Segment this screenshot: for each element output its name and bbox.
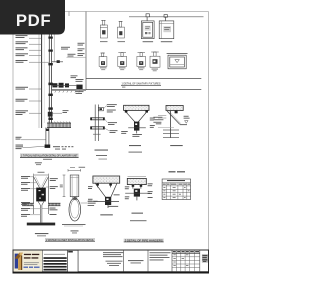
anchor bolts (125, 110, 128, 112)
logo company name lines (24, 254, 31, 255)
brace rods (96, 184, 106, 198)
elevation note dotted (53, 146, 73, 149)
pipe clamp detail: leader texts (107, 104, 118, 133)
title strip: typical installation detail (20, 153, 79, 157)
company logo cell background (14, 251, 43, 272)
seal box (68, 250, 78, 271)
address striped text block (44, 253, 65, 256)
legend header text (167, 180, 185, 181)
page background (0, 0, 216, 287)
logo address lines (24, 261, 39, 264)
sheet frame (13, 12, 209, 251)
hanger rods and bolts (97, 183, 99, 187)
svg-text:PDF: PDF (16, 11, 51, 30)
base line (62, 223, 86, 225)
fixture symbol FV-1 (row1) (100, 20, 107, 38)
revision table (172, 250, 200, 272)
fixture symbol S-1 (row1, double walled) (141, 14, 154, 39)
row2 drain symbol 3 (137, 53, 146, 67)
pipe couplings (48, 37, 52, 121)
pipe clamp detail: flange bars (91, 118, 105, 129)
annotation text stacks left (16, 35, 29, 149)
fixture symbol FV-2 (row1) (117, 21, 124, 38)
annotation leader lines (21, 38, 49, 148)
urinal dimension line (34, 174, 49, 176)
notes between details (153, 117, 163, 123)
title strip: pipe hanger details (124, 239, 164, 242)
sheet title cell texts (150, 252, 171, 260)
work elements cell text (128, 260, 144, 261)
svg-text:1 DETAIL OF SANITARY FIXTURES: 1 DETAIL OF SANITARY FIXTURES (122, 82, 161, 86)
label A (100, 214, 113, 215)
title strip: water closet detail (45, 238, 95, 241)
pipe end cap (45, 145, 51, 148)
bowl connection (73, 197, 77, 200)
wall section vertical lines (38, 34, 40, 128)
section labels (129, 145, 141, 146)
central clamp assembly (134, 122, 139, 131)
logo blue contact line (24, 267, 29, 268)
ceiling support detail B: slab (127, 178, 146, 184)
title block frame (13, 250, 209, 272)
wall-mount valve with leader (48, 112, 53, 117)
row2 drain symbol 4 (150, 52, 160, 67)
row2 drain symbol 1 (99, 53, 107, 66)
vertical hanger rod (169, 111, 171, 138)
revision table header marks (173, 251, 199, 252)
floor band left (22, 203, 34, 206)
annotation text stacks right of riser (61, 43, 85, 94)
diagonal strut (167, 111, 180, 124)
leader texts B (125, 183, 153, 199)
logo emblem angled top (15, 253, 23, 259)
band rules (86, 77, 201, 79)
elevation detail leader texts (156, 116, 190, 125)
legend table (162, 179, 191, 200)
left dimension rail (63, 175, 65, 197)
leader texts A (88, 186, 120, 207)
logo emblem tan column (18, 255, 22, 270)
inverted triangle mark (185, 121, 189, 124)
plan label (71, 230, 79, 231)
ceiling support detail B: dim line (128, 176, 147, 178)
cell dividers (43, 250, 200, 272)
ceiling support detail A: slab (93, 176, 120, 183)
elevation label (170, 145, 183, 146)
ceiling hanger detail (elevation): slab (166, 106, 183, 111)
horizontal pipe double line (52, 88, 86, 90)
PDF badge (0, 0, 65, 35)
pipe clamp detail: riser pipe (94, 105, 96, 142)
title block bottom thick border (13, 272, 210, 274)
pipe riser double line (48, 12, 50, 123)
supply pipe line across top (129, 16, 204, 18)
logo emblem blue bar (15, 254, 18, 269)
hanger bolt (175, 111, 178, 114)
project info cell texts (103, 252, 124, 257)
hatch ticks under pipe run (55, 91, 80, 93)
pipe clamp detail: top fitting (98, 107, 103, 110)
water closet plan: dim line (68, 169, 81, 171)
fixture symbol UR-1 (row1) (159, 15, 174, 39)
legend cell marks (163, 187, 189, 198)
floor slab hatched band (47, 123, 71, 128)
clamp assembly (105, 197, 111, 205)
row2 cleanout symbol (large) (167, 52, 188, 54)
legend table title (169, 171, 176, 172)
urinal base slab bar (27, 223, 55, 226)
row2 drain symbol 2 (118, 53, 127, 67)
urinal annotation stacks (21, 176, 58, 217)
label B (132, 213, 144, 214)
top stub under sheet border (68, 12, 70, 17)
urinal body hatched block (36, 188, 46, 202)
B clamp (134, 189, 140, 197)
svg-text:1 TYPICAL INSTALLATION DETAIL: 1 TYPICAL INSTALLATION DETAIL OF LAVATOR… (21, 154, 78, 158)
bowl leader texts (81, 202, 87, 204)
urinal section label (35, 233, 49, 234)
drain pipe below floor (45, 128, 47, 145)
water closet bowl oval (69, 198, 81, 221)
B hangers (132, 185, 134, 189)
section detail leader texts (121, 118, 155, 137)
water closet tank rectangle (70, 175, 79, 197)
floor band right (48, 203, 61, 206)
valve assembly on riser (52, 83, 82, 89)
urinal side walls (33, 176, 35, 214)
V brace rods (126, 112, 136, 123)
pipe clamp labels (95, 150, 109, 151)
revision table row marks (173, 254, 188, 266)
panel divider (85, 12, 87, 90)
pipe rack lines (163, 130, 179, 138)
urinal detail top tag (35, 162, 42, 163)
urinal outlet funnel and pipe (38, 201, 40, 205)
branch pipe (52, 61, 63, 63)
approval stamp (202, 254, 208, 262)
ceiling hanger detail (section): slab (124, 105, 149, 110)
urinal funnel top (34, 177, 40, 188)
